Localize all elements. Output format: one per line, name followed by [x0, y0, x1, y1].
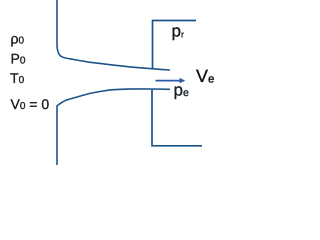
svg-text:V0 = 0: V0 = 0: [11, 96, 50, 112]
